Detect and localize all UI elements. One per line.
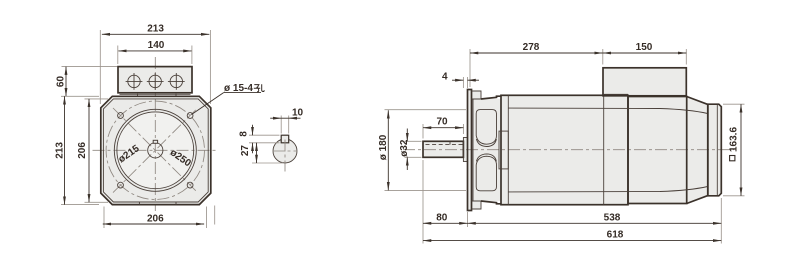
end plate	[708, 104, 722, 196]
shaft	[423, 141, 463, 157]
svg-text:140: 140	[148, 40, 165, 51]
frame corner line top	[508, 108, 707, 113]
terminal box fill	[118, 67, 192, 93]
gland circle left	[126, 73, 143, 90]
dim 140 top	[118, 40, 192, 64]
dim 10 key width	[270, 107, 303, 133]
bolt hole top-left	[118, 113, 124, 119]
gland circle right	[168, 73, 185, 90]
hole character (kong)	[254, 84, 264, 92]
dim 206 left	[77, 99, 108, 202]
diagonal centerline NW-SE	[113, 108, 198, 193]
terminal box base line	[120, 93, 191, 95]
dim 213 left	[54, 96, 99, 204]
flange octagon outline	[101, 96, 211, 204]
bracket pocket bottom	[476, 156, 496, 191]
dim 8 key height	[239, 125, 280, 154]
terminal box outline	[118, 67, 192, 93]
svg-text:150: 150	[636, 42, 653, 53]
svg-text:ø 15-4: ø 15-4	[224, 83, 253, 94]
svg-text:70: 70	[436, 117, 448, 128]
body internal vertical left	[507, 95, 509, 204]
svg-text:60: 60	[56, 76, 67, 88]
horizontal centerline	[93, 149, 218, 151]
end bell chamfer	[687, 97, 708, 204]
shaft hidden keyway line	[426, 144, 464, 146]
bolt hole bottom-left	[118, 182, 124, 188]
key block	[281, 135, 289, 143]
terminal box side	[603, 68, 686, 96]
section centerlines	[284, 140, 286, 172]
dim dia 180	[378, 110, 466, 191]
shaft section circle	[273, 139, 297, 163]
svg-text:206: 206	[147, 213, 164, 224]
bracket outline bottom	[481, 201, 501, 204]
bottom bolt lug	[472, 201, 482, 209]
flange bottom notch lines	[138, 202, 140, 205]
dim 70 shaft length	[423, 117, 463, 139]
dim 150	[603, 42, 687, 65]
bolt hole top-right	[187, 113, 193, 119]
terminal box step line	[603, 93, 628, 95]
bolt hole bottom-right	[187, 182, 193, 188]
shaft shoulder	[463, 138, 467, 162]
svg-text:278: 278	[523, 42, 540, 53]
diagonal centerline NE-SW	[113, 108, 198, 193]
shaft boss circle with keyway	[148, 143, 163, 158]
svg-text:8: 8	[239, 131, 250, 137]
svg-text:163.6: 163.6	[728, 127, 739, 152]
body fills	[423, 141, 463, 157]
spigot circle inner	[117, 112, 194, 189]
svg-text:213: 213	[147, 23, 164, 34]
bracket pocket bottom inner curve	[476, 154, 496, 162]
vertical centerline	[154, 57, 156, 211]
spigot face lighter fill	[117, 112, 194, 189]
svg-text:80: 80	[436, 212, 448, 223]
spigot circle outer	[114, 109, 196, 191]
leader dia 15-4 holes	[192, 83, 265, 115]
dim 60 left	[56, 67, 118, 97]
dim square 163.6	[723, 104, 745, 196]
bracket pocket top inner curve	[476, 139, 496, 147]
body rear section	[628, 97, 687, 204]
bracket pocket top	[476, 110, 496, 145]
svg-text:ø32: ø32	[399, 139, 410, 157]
bracket inner vertical line	[472, 100, 474, 201]
svg-text:206: 206	[77, 142, 88, 159]
body internal vertical under box	[603, 95, 605, 204]
flange top notch lines	[137, 94, 139, 97]
gland circle middle	[147, 73, 164, 90]
bolt circle (dash-dot)	[106, 101, 204, 199]
dim 27	[240, 143, 283, 163]
dim 80	[423, 160, 468, 244]
main centerline	[403, 149, 734, 151]
body front section	[501, 95, 628, 204]
dim 4 flange thickness	[442, 72, 479, 89]
top bolt lug	[472, 91, 482, 99]
body recess step	[499, 131, 508, 169]
dim 206 bottom	[103, 206, 215, 229]
end plate inner line	[716, 105, 718, 196]
inner octagon line	[103, 99, 208, 202]
svg-text:ø 180: ø 180	[378, 134, 389, 160]
frame corner line bottom	[508, 187, 707, 192]
svg-text:618: 618	[607, 230, 624, 241]
dim 538	[468, 198, 722, 244]
dim 278	[470, 42, 603, 87]
svg-text:27: 27	[240, 145, 251, 157]
svg-text:4: 4	[442, 72, 448, 83]
dim 618	[423, 230, 721, 241]
svg-text:10: 10	[292, 107, 304, 118]
dim 213 top	[100, 23, 210, 104]
bracket outline top	[481, 96, 501, 99]
svg-text:538: 538	[604, 212, 621, 223]
flange plate side	[468, 90, 472, 211]
svg-text:213: 213	[54, 142, 65, 159]
flange octagon fill	[101, 96, 211, 204]
dim dia 32	[399, 129, 422, 171]
